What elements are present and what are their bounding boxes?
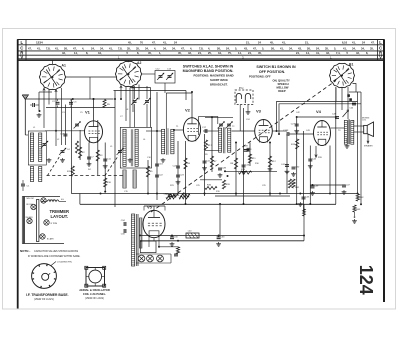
cap C18 (155, 164, 159, 166)
svg-text:MELLOW: MELLOW (277, 86, 289, 90)
gang dash diag 1 (48, 155, 61, 176)
wire top rail A1 (25, 98, 113, 100)
junction j36 (139, 235, 141, 237)
svg-text:ON, QUALITY: ON, QUALITY (273, 78, 291, 82)
cap C41 (285, 165, 289, 167)
junction j0 (93, 98, 95, 100)
res R5 (146, 166, 149, 177)
svg-text:I.F. TRANSFORMER BASE.: I.F. TRANSFORMER BASE. (26, 293, 69, 297)
ground g5 (161, 158, 166, 162)
svg-text:POSITIONS:: POSITIONS: (194, 73, 210, 77)
junction j19 (120, 98, 122, 100)
cap C49 (311, 186, 315, 188)
res R13 (296, 139, 299, 149)
table row label C left (20, 46, 23, 51)
label V5 (147, 205, 153, 210)
svg-text:8,: 8, (137, 51, 139, 55)
label C13 c (60, 134, 65, 136)
junction j13 (329, 193, 331, 195)
svg-text:43,: 43, (298, 46, 302, 50)
trimmer t0 (41, 198, 46, 203)
label R5 c (107, 104, 111, 106)
label V1 (85, 110, 91, 115)
ground g11 (285, 170, 290, 174)
heater wires (136, 254, 171, 263)
svg-text:SPEAKER: SPEAKER (364, 145, 373, 148)
label C26 c (245, 165, 250, 167)
svg-text:L: L (379, 40, 382, 45)
wire v-x148 (147, 160, 149, 194)
svg-text:47,: 47, (181, 46, 185, 50)
wire rail y204 (80, 194, 336, 205)
cap C46 (350, 103, 357, 109)
svg-text:V2: V2 (185, 108, 191, 113)
svg-text:5,: 5, (334, 46, 336, 50)
svg-text:POSITIONS: OFF: POSITIONS: OFF (249, 75, 271, 79)
svg-text:V: V (379, 55, 382, 60)
wire A1 drop 3 (55, 90, 57, 147)
svg-text:4,: 4, (190, 46, 192, 50)
junction j2 (114, 98, 116, 100)
junction j5 (100, 193, 102, 195)
wire rail y150 (205, 149, 219, 151)
res R36 (205, 186, 217, 189)
svg-text:C2B: C2B (222, 168, 227, 170)
cap C26 (242, 165, 246, 167)
wire A1 drop 1 (43, 88, 57, 128)
svg-text:24,: 24, (248, 51, 252, 55)
junction j32 (296, 116, 298, 118)
cap C1 (21, 180, 30, 191)
res R12 (268, 156, 271, 167)
svg-text:75,: 75, (228, 51, 232, 55)
svg-text:47.: 47. (371, 41, 375, 45)
wire rail y171 (224, 170, 277, 172)
svg-text:41,: 41, (55, 46, 59, 50)
table data row R (62, 51, 368, 55)
junction j11 (269, 193, 271, 195)
junction j23 (235, 193, 237, 195)
svg-text:C12F: C12F (283, 130, 289, 132)
tuning cap C9 (59, 148, 66, 155)
svg-text:MAGNIFIED BAND POSITION.: MAGNIFIED BAND POSITION. (183, 69, 234, 73)
wire rail T2-V2 (174, 129, 183, 131)
junction jh (158, 240, 179, 248)
junction j25 (309, 203, 311, 205)
svg-text:COIL: COIL (362, 120, 366, 122)
label R12 c (272, 161, 277, 163)
trimmer C6 (74, 122, 81, 129)
wire rail y235 (140, 235, 304, 237)
cap C1a (30, 103, 39, 107)
label R40 c (292, 183, 297, 185)
svg-text:35,: 35, (325, 46, 329, 50)
svg-text:14,: 14, (306, 51, 310, 55)
label C49 c (314, 186, 319, 188)
wire V2 top (166, 93, 192, 99)
junction j37 (183, 193, 185, 195)
wire v-x296 (296, 117, 298, 204)
svg-text:47,: 47, (253, 46, 257, 50)
label R16 c (107, 182, 112, 184)
speckle labels (33, 109, 355, 193)
junction j31 (211, 116, 213, 118)
trimmer labels (26, 198, 58, 241)
junction j9 (171, 235, 173, 237)
label R13 c (291, 144, 296, 146)
svg-text:34,: 34, (145, 46, 149, 50)
label R43 c (356, 209, 361, 211)
wire v-x330 (329, 146, 331, 194)
dashed link B1 (151, 81, 336, 213)
label TRIMMER LAYOUT (50, 209, 70, 219)
tube V3 (255, 120, 273, 143)
wire v-x65 (64, 105, 66, 146)
table row label R right (379, 51, 383, 56)
table row label C right (379, 46, 382, 51)
svg-text:34,: 34, (172, 46, 176, 50)
label C41 c (281, 164, 286, 166)
svg-text:26,: 26, (271, 46, 275, 50)
pot arrow B1 (343, 110, 349, 117)
label C2 c (52, 101, 56, 103)
res R2 (79, 147, 82, 158)
junction j18 (72, 98, 74, 100)
osc box risers (130, 88, 151, 128)
label C3 c (74, 102, 78, 104)
label R36 c (207, 185, 212, 187)
svg-text:5,: 5, (235, 46, 237, 50)
svg-text:4,: 4, (154, 46, 156, 50)
junction j29 (235, 142, 237, 144)
ground g6 (176, 180, 181, 184)
junction j12 (296, 203, 298, 205)
label C35 c (121, 234, 126, 236)
svg-text:7,4,: 7,4, (336, 51, 341, 55)
label mullard (362, 117, 370, 121)
svg-text:IF WINDINGS ARE CONTAINED: IF WINDINGS ARE CONTAINED WITHIN SAME. (28, 255, 81, 258)
heater lamp 2 (147, 255, 154, 262)
label C18 c (159, 164, 164, 166)
junction j3 (279, 193, 281, 195)
wire B1 drop 4 (353, 84, 357, 93)
cap C27 (295, 124, 299, 126)
res R5b (103, 100, 106, 108)
wire v-x243 (243, 108, 245, 204)
C17 box (199, 117, 218, 135)
note switches A1 A2 (183, 65, 234, 87)
wire v-x250 (249, 143, 251, 167)
label R3 c (100, 155, 104, 157)
cap C33 (217, 237, 221, 239)
res R24 (176, 247, 179, 254)
ground g9 (241, 170, 246, 174)
wire v-x157 (156, 92, 158, 200)
svg-text:CAPACITOR VALUES SHOWN ACRO: CAPACITOR VALUES SHOWN ACROSS (34, 250, 79, 253)
cap C13 (63, 134, 67, 136)
res R7 (210, 156, 213, 167)
junction j20 (156, 130, 158, 132)
tube V1 (85, 121, 103, 143)
svg-text:4,: 4, (82, 46, 84, 50)
wire loop right (303, 204, 305, 241)
heater box (140, 241, 156, 253)
ground g1 (60, 158, 65, 162)
junction j4 (312, 184, 314, 186)
cap C6A (168, 195, 172, 197)
IF base locating pin (51, 261, 73, 266)
svg-text:45,: 45, (178, 51, 182, 55)
wire v-x236 (235, 143, 237, 197)
wire v-x287 (286, 134, 288, 194)
svg-text:A1: A1 (62, 64, 66, 68)
table bottom double line (18, 59, 384, 60)
trimmer shaft (37, 200, 39, 242)
wire y247 (159, 246, 178, 248)
svg-text:8,: 8, (366, 51, 368, 55)
wire rail y196 (215, 195, 290, 197)
trimmer t2 (27, 218, 32, 223)
ground g10 (268, 167, 273, 171)
wire v-x97 (97, 120, 99, 175)
cap C3 (69, 102, 73, 104)
svg-text:41,: 41, (280, 46, 284, 50)
res R8 (234, 158, 237, 169)
svg-text:34,: 34, (100, 46, 104, 50)
label R41 c (295, 187, 300, 189)
svg-text:V: V (20, 55, 23, 60)
res R16 (104, 178, 107, 187)
switch A1 (39, 64, 65, 89)
wire A2 drop 3 (132, 86, 134, 112)
wire speaker leads (347, 126, 364, 143)
aerial coil L2 (39, 133, 42, 162)
aerial coil L1 (30, 133, 33, 162)
res R43 (353, 205, 356, 212)
svg-text:(VIEW OF LUGS): (VIEW OF LUGS) (85, 297, 104, 300)
svg-text:43,: 43, (244, 46, 248, 50)
wire rail V4-OT (331, 127, 345, 129)
ground g12 (291, 172, 296, 176)
ground g18 (170, 242, 175, 246)
svg-text:6,10: 6,10 (342, 41, 348, 45)
junction j22 (185, 203, 187, 205)
res R21 (179, 196, 189, 199)
res R22 (168, 194, 190, 197)
junction j16 (335, 116, 337, 118)
cap C28 (247, 148, 249, 152)
table row label R left (20, 51, 24, 56)
svg-text:124: 124 (356, 265, 376, 295)
res R6 (184, 158, 187, 169)
svg-text:1,: 1, (159, 51, 161, 55)
svg-text:26,: 26, (217, 46, 221, 50)
V5 pins (149, 238, 159, 248)
wire rail y240 (140, 240, 304, 242)
svg-text:14,: 14, (74, 51, 78, 55)
svg-text:A2: A2 (137, 61, 141, 65)
cap C12F (287, 132, 289, 136)
label C45 c (305, 197, 310, 199)
wire v-x72 (70, 99, 72, 194)
label R2 c (82, 152, 86, 154)
wire transformer top (131, 210, 133, 214)
trimmer t1 (31, 204, 36, 209)
frame right border (383, 40, 385, 303)
junction j38 (224, 170, 226, 172)
wire feedback outer (277, 92, 358, 194)
svg-text:26,: 26, (64, 46, 68, 50)
svg-text:45,: 45, (258, 51, 262, 55)
output transformer (344, 119, 354, 144)
IF base lugs (32, 264, 56, 288)
table data row V (118, 55, 333, 59)
label R8 c (230, 163, 234, 165)
label C11 c (107, 159, 112, 161)
svg-text:41,: 41, (282, 41, 286, 45)
junction j28 (299, 193, 301, 195)
svg-text:24,: 24, (316, 46, 320, 50)
res R40 (288, 179, 291, 188)
table row line 3 (18, 54, 384, 56)
svg-text:LOCATING PIN.: LOCATING PIN. (57, 261, 73, 264)
cap C45 (302, 197, 306, 199)
wire rail AVC (71, 193, 358, 195)
choke L20 (186, 233, 199, 238)
svg-text:42,: 42, (356, 51, 360, 55)
ground g21 (246, 110, 251, 114)
res R37 (303, 209, 306, 216)
svg-text:45,: 45, (270, 41, 274, 45)
svg-text:47.: 47. (152, 41, 156, 45)
svg-text:(VIEW OF LUGS): (VIEW OF LUGS) (34, 298, 54, 301)
wire rail y179 (200, 179, 222, 181)
tube V2 (183, 118, 200, 142)
wire B1 drop 3 (347, 87, 349, 119)
switch B1 (330, 63, 355, 87)
ground g3 (103, 164, 108, 168)
wire rail grid V1 (45, 130, 85, 132)
label C47 c (346, 185, 351, 187)
osc coil L5 (123, 129, 126, 166)
label C20 c (173, 166, 178, 168)
cap C2B (218, 168, 222, 170)
heater lamp 1 (138, 255, 145, 262)
wire aerial top (39, 92, 52, 112)
bandspread box (155, 71, 175, 129)
svg-text:47,: 47, (28, 46, 32, 50)
junction j1 (191, 91, 193, 93)
label C30 c (174, 236, 179, 238)
speaker label (364, 134, 373, 148)
svg-text:41,: 41, (163, 41, 167, 45)
ground g13 (294, 129, 299, 133)
res R17 (204, 140, 207, 150)
IF base hole (42, 273, 51, 280)
svg-text:7,8,: 7,8, (199, 46, 204, 50)
wire v-x105 (104, 143, 106, 192)
label R5 c (150, 171, 154, 173)
wire A1-A2 link (65, 77, 116, 99)
res R41 (292, 179, 295, 188)
cap C19 (244, 149, 248, 151)
tuning cap C16 (117, 148, 124, 155)
svg-text:V4: V4 (316, 109, 322, 114)
table row line 1 (18, 44, 384, 46)
label R21 c (185, 194, 190, 196)
svg-text:SW AER: SW AER (26, 216, 34, 219)
label C40 c (295, 167, 300, 169)
ground g2 (87, 162, 92, 166)
junction ja (39, 110, 41, 112)
table data row C (28, 46, 374, 50)
wire box top (114, 91, 187, 101)
wire rail osc-T2 (146, 130, 162, 132)
svg-text:IF TRIM: IF TRIM (51, 223, 58, 225)
note switch B1 (249, 65, 296, 93)
svg-text:41,: 41, (37, 46, 41, 50)
wire trimmer drops (135, 86, 148, 127)
junction j27 (104, 191, 106, 193)
svg-text:COIL LUG PANEL.: COIL LUG PANEL. (83, 292, 106, 296)
svg-text:24,: 24, (296, 51, 300, 55)
label R11 c (252, 158, 257, 160)
wire feedback inner (279, 92, 361, 204)
svg-text:7,8,: 7,8, (118, 46, 123, 50)
label B1 (349, 63, 353, 67)
lug panel square (86, 268, 105, 287)
label IF base (26, 293, 69, 301)
junction j15 (278, 133, 280, 135)
label R39 c (226, 184, 231, 186)
svg-text:25,: 25, (208, 51, 212, 55)
wire A2 drop 1 (120, 86, 134, 100)
svg-text:5,: 5, (262, 46, 264, 50)
svg-text:8,: 8, (86, 51, 88, 55)
IF transformer T3 (219, 127, 231, 153)
ground g0 (47, 158, 52, 162)
tube V4 (314, 121, 331, 146)
label R7 c (214, 161, 218, 163)
speaker (364, 122, 374, 137)
wire v-x204 (204, 134, 206, 196)
ground g8 (218, 173, 223, 177)
wire A2 drop 4 (138, 85, 140, 100)
wire filter (41, 201, 66, 203)
junction j14 (276, 130, 278, 132)
junction j24 (219, 203, 221, 205)
wire rail C12F-V4 (289, 133, 314, 135)
svg-text:BC AER: BC AER (47, 238, 54, 241)
junction j6 (147, 193, 149, 195)
lug panel ticks (86, 268, 105, 287)
frame left border (17, 40, 19, 309)
svg-text:B1: B1 (349, 63, 353, 67)
svg-text:45,: 45, (148, 51, 152, 55)
trimmer C10 A2 (144, 98, 151, 105)
label R38 c (241, 169, 246, 171)
label C12F c (283, 130, 289, 132)
res R15 (71, 166, 74, 176)
svg-text:42,: 42, (188, 51, 192, 55)
cap C47 (342, 185, 346, 187)
junction j26 (156, 193, 158, 195)
wire B1 drop 2 (341, 88, 343, 111)
svg-text:V3: V3 (256, 109, 262, 114)
osc coil L3 (30, 167, 33, 182)
wire rail y117b (205, 116, 233, 118)
wire v-x80 (79, 130, 81, 160)
